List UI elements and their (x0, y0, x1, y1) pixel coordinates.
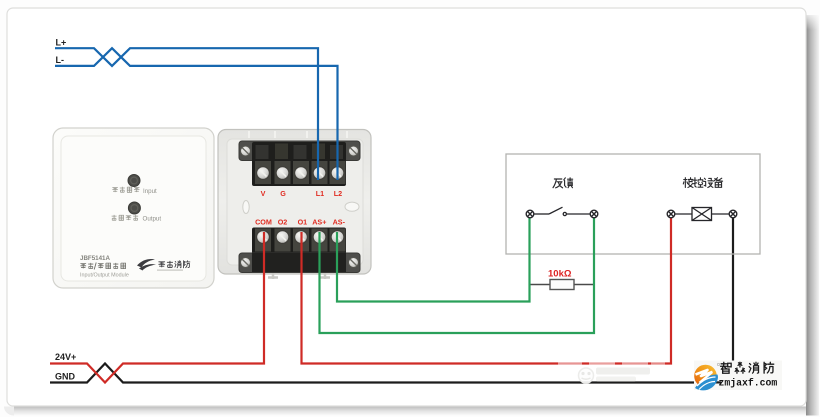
svg-text:GND: GND (55, 372, 76, 382)
svg-text:JBF5141A: JBF5141A (80, 255, 110, 262)
svg-text:Input/Output Module: Input/Output Module (80, 273, 129, 279)
terminal labels bottom: COM O2 O1 AS+ AS- (255, 218, 345, 227)
faint watermark overlay (558, 352, 665, 384)
terminal base plate (218, 130, 371, 280)
terminal screws bottom row: COM O2 O1 AS+ AS- (257, 231, 344, 244)
wire L- (blue, to terminal L2) (55, 48, 338, 180)
svg-text:L2: L2 (334, 189, 342, 198)
wire AS+ to feedback right terminal (green) (320, 217, 595, 333)
module U1 LED input (128, 175, 140, 187)
logo text 智淼消防 (721, 362, 774, 373)
terminal labels top: V G L1 L2 (261, 189, 343, 198)
svg-text:Input: Input (143, 188, 157, 195)
logo zmjaxf circle (694, 363, 720, 390)
module U1 label 输入动作 Input (112, 187, 157, 195)
svg-text:L+: L+ (56, 38, 67, 48)
resistor R1 body (550, 280, 574, 290)
svg-text:O2: O2 (278, 218, 288, 227)
terminal strip top bar (239, 141, 360, 161)
module U1 label 输入/输出模块 (80, 263, 125, 270)
wire 24V+ (red, to terminal COM) (50, 232, 264, 383)
module U1 logo 青鸟消防 (137, 259, 190, 271)
terminal strip bottom bar (239, 253, 360, 273)
svg-text:G: G (280, 189, 286, 198)
svg-text:O1: O1 (298, 218, 308, 227)
resistor R1 wire (530, 284, 595, 286)
svg-text:V: V (261, 189, 266, 198)
svg-text:24V+: 24V+ (55, 352, 76, 362)
controlled device load symbol (674, 208, 729, 221)
feedback switch left terminal (526, 210, 534, 218)
zmjaxf watermark backdrop (694, 361, 782, 391)
terminal screws top row: V G - L1 L2 (257, 167, 344, 180)
wire GND (black, to controlled-device right terminal) (50, 217, 733, 383)
controlled device right terminal (729, 210, 737, 218)
GND wire stub near logo (714, 381, 721, 383)
terminal housings top row (252, 142, 346, 186)
feedback switch S1 (533, 207, 590, 215)
module U1 label 输出动作 Output (112, 215, 162, 223)
svg-text:L-: L- (56, 55, 65, 65)
svg-text:zmjaxf.com: zmjaxf.com (719, 378, 778, 389)
feedback switch right terminal (590, 210, 598, 218)
svg-text:L1: L1 (316, 189, 324, 198)
wire O1 to controlled device (red) (302, 217, 672, 364)
controlled device label 被控设备 (683, 178, 722, 188)
svg-text:10kΩ: 10kΩ (548, 269, 572, 280)
module U1 LED output (128, 202, 140, 214)
terminal housings bottom row (252, 228, 346, 272)
module U1 JBF5141A faceplate (53, 128, 214, 288)
svg-text:AS-: AS- (333, 218, 346, 227)
svg-text:AS+: AS+ (312, 218, 326, 227)
feedback / controlled-device outline box (506, 154, 760, 254)
controlled device left terminal (667, 210, 675, 218)
svg-text:COM: COM (255, 218, 272, 227)
feedback label 反馈 (553, 178, 573, 188)
svg-text:Output: Output (143, 216, 162, 223)
wire L+ (blue, to terminal L1) (55, 48, 318, 180)
wire AS- to feedback left terminal (green) (337, 217, 530, 302)
